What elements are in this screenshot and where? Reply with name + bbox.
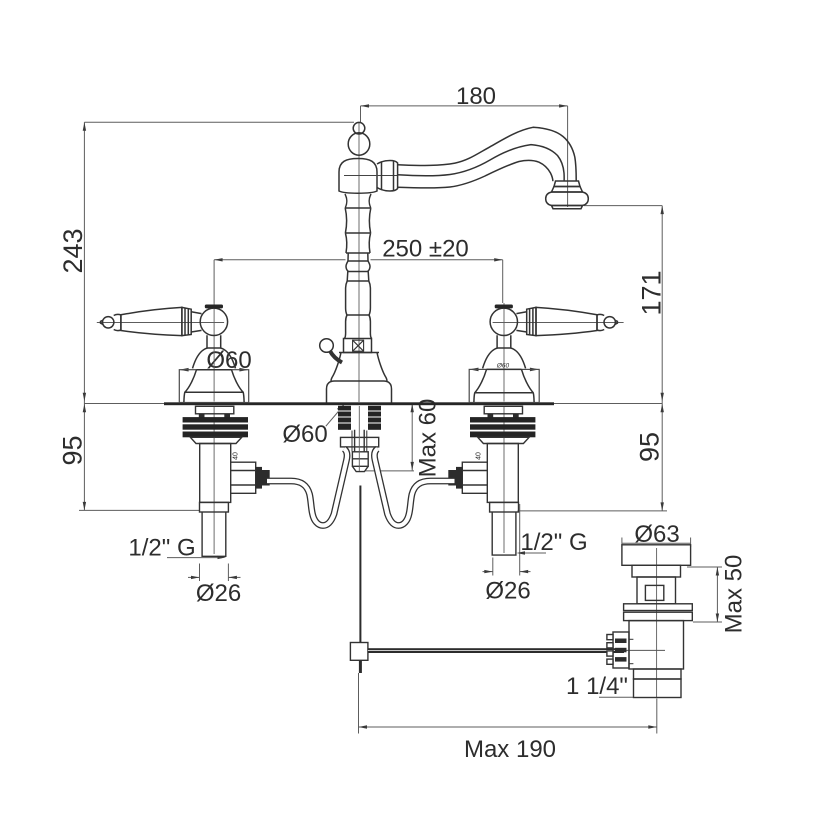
right ball cap screw [495,305,513,309]
right port fitting bands [456,467,462,489]
dim Max50 vertical [716,567,718,622]
left supply hose [267,449,347,526]
arrowhead leader 1/2G right [517,551,526,554]
left valve body tube [200,444,231,503]
leader O60 center [326,406,344,427]
dim Max50 bottom extension [693,621,722,623]
left handle link [191,312,201,332]
dim 243 extension line top [84,121,354,123]
svg-text:243: 243 [58,228,88,273]
pop-up rod clevis block [350,643,368,661]
leader 1/2G left [167,557,222,559]
drain upper body [637,577,676,604]
dim 250 right extension [502,260,504,303]
right cone washer [478,437,529,443]
center below-deck centerline [358,406,360,471]
leader 1 1/4 inch [599,696,634,698]
left tail nut [200,502,229,512]
arrowhead leader 1/2G left [218,556,227,559]
dim Max50 top extension [687,566,722,568]
left valve stem [207,335,221,348]
drain body centerline horizontal [624,649,665,651]
clevis pin [359,660,362,673]
svg-text:Ø60: Ø60 [496,363,510,370]
drain flange ring 1 [624,604,693,611]
dim O63 tick left [621,538,623,548]
left handle centerline horizontal [97,322,224,324]
narrow drum D [346,253,370,261]
dim O26 right bracket [492,558,494,576]
dim 171 top extension line [584,205,662,207]
left valve below-deck centerline [213,406,215,554]
column neck [345,194,371,208]
CENTER COLUMN + SPOUT [320,122,589,402]
svg-text:Max 190: Max 190 [464,736,556,763]
right valve stem [497,335,511,348]
right side port hex [462,462,487,493]
svg-text:180: 180 [456,83,496,110]
svg-text:Ø26: Ø26 [485,578,530,605]
svg-text:1 1/4": 1 1/4" [566,673,628,700]
svg-text:1/2" G: 1/2" G [520,529,587,556]
right mount tabs [488,414,494,419]
dim 250 line left part [214,259,345,261]
DECK [84,402,662,405]
left port fitting bands [256,467,262,489]
column centerline [358,122,360,402]
svg-text:Max 60: Max 60 [415,399,442,478]
svg-text:95: 95 [635,432,665,462]
dim Max60 bottom extension [366,470,415,472]
arrowheads O60 box left [179,368,188,372]
right handle ball joint [490,308,517,335]
dim O26 left bracket [199,564,201,582]
right skirt bell [474,369,534,402]
finial large ball [348,133,370,155]
column skirt bell [331,353,387,382]
right tail pipe [492,512,516,555]
left handle acorn tip [103,317,114,328]
center connection nut [352,452,368,467]
dim Max190 right extension [656,699,658,734]
right supply hose [374,449,454,526]
arrowheads O26 left outside [191,576,200,579]
right handle acorn tip [604,317,615,328]
arrowheads O26 right outside [484,570,493,573]
right valve centerline vertical [503,303,505,402]
left skirt bell [184,370,244,402]
drain main body [629,621,684,669]
arrowheads 95 left [83,404,86,413]
center shank tube [355,430,365,452]
left handle cone [121,307,182,335]
right handle ferrule [527,307,536,335]
head centerline [344,175,397,177]
right O60 dimension box [469,369,539,402]
spout body head [339,159,377,194]
spout tube top contour [398,127,577,180]
dim Max190 line [359,726,657,728]
right skirt base ring line [475,392,533,394]
dim Max190 left extension [358,673,360,734]
countertop deck thick line [164,402,554,405]
right handle centerline horizontal [493,322,624,324]
dim 243/95 vertical line left [83,122,85,510]
arrowheads 180 [361,104,370,107]
baluster segment B [345,208,371,233]
left handle ferrule [182,307,191,335]
left side port hex [231,462,256,493]
knurled nut slots [615,639,627,662]
pop-up knob [320,339,334,353]
svg-text:171: 171 [637,270,667,315]
arrowheads 243 [83,122,86,131]
right valve bonnet dome [483,348,526,368]
right handle cone [536,307,597,335]
svg-text:250 ±20: 250 ±20 [382,236,469,263]
spout outlet ring1 [554,181,580,187]
left O60 dimension box [179,370,248,403]
dim 180 right extension to spout [567,106,569,207]
svg-text:1/2" G: 1/2" G [128,535,195,562]
center studs [338,406,381,430]
svg-text:40: 40 [233,452,240,460]
diverter block [344,339,372,353]
dim 250 left extension [213,260,215,303]
left valve centerline vertical [213,303,215,402]
drain neck [632,565,681,577]
left locknut rings [183,417,248,437]
svg-text:Ø63: Ø63 [634,521,679,548]
center bracket bar [341,437,379,447]
ball ring E [346,261,370,272]
svg-text:Ø26: Ø26 [196,580,241,607]
arrowheads Max60 [411,404,414,413]
drain tail pipe [634,679,682,698]
svg-text:40: 40 [476,452,483,460]
drain knurled nut body [613,632,629,668]
dim 250 line right part [371,259,503,261]
dim O63 tick right [690,538,692,548]
right valve below-deck centerline [503,406,505,553]
spout outlet ring2 [552,187,583,193]
right mount plate [484,406,522,414]
arrowheads O60 box right [469,368,478,372]
leader 1/2G right [520,552,546,554]
left ball cap screw [205,305,223,309]
svg-text:95: 95 [58,435,88,465]
spout tube middle contour [398,145,565,181]
right locknut rings [470,417,535,437]
arrowheads 250 [214,258,223,261]
drain cap flange [622,545,691,566]
left tail pipe [202,512,226,556]
baluster segment C [345,233,370,253]
dim Max60 vertical [411,404,413,471]
dim 171/95 vertical line right [661,206,663,511]
left valve bonnet dome [193,348,236,368]
right handle collar [597,314,604,330]
svg-text:Ø60: Ø60 [282,421,327,448]
spout tube bottom contour [398,160,553,188]
arrowheads 95 right [661,404,664,413]
column plinth [327,381,392,403]
svg-text:Max 50: Max 50 [721,555,748,634]
knurled nut teeth [607,635,613,665]
left mount plate [196,406,234,414]
left handle ball joint [200,308,227,335]
deck thin extension left [84,403,164,405]
arrowheads 171 [661,206,664,215]
left cone washer [190,437,241,443]
arrowheads Max50 [716,567,719,576]
dim 95 right bottom extension line [518,510,668,512]
right tail nut [490,502,519,512]
left handle collar [114,314,121,330]
arrowhead leader O60 center [337,404,345,411]
center nut tip [352,466,368,471]
left mount tabs [199,414,205,419]
deck thin extension right [554,403,662,405]
baluster segment G [346,281,371,315]
top finial small ball [353,122,365,134]
drain body window [645,585,663,600]
left skirt base ring line [185,391,243,393]
pop-up knob lever arm [330,351,342,363]
arrowheads Max190 [359,725,368,728]
knurled nut connector lines [629,638,633,640]
drain tail flange [634,669,682,679]
dim 95 left bottom extension line [79,509,200,511]
drain centerline [656,548,658,697]
spout arm collar [377,161,398,192]
cross symbol box [353,340,364,351]
spout outlet bulge [546,192,589,206]
drum F [347,272,369,282]
dim 180 left extension stub [360,106,362,122]
horizontal actuating rod [368,648,624,653]
drain flange ring 2 [624,612,693,620]
right handle link [516,312,526,332]
right valve body tube [487,444,518,503]
baluster segment H [345,315,372,339]
dim 180 line [361,105,568,107]
dim O63 bracket line [622,542,691,544]
spout outlet bottom ring [552,206,583,209]
pop-up vertical rod [359,486,361,643]
